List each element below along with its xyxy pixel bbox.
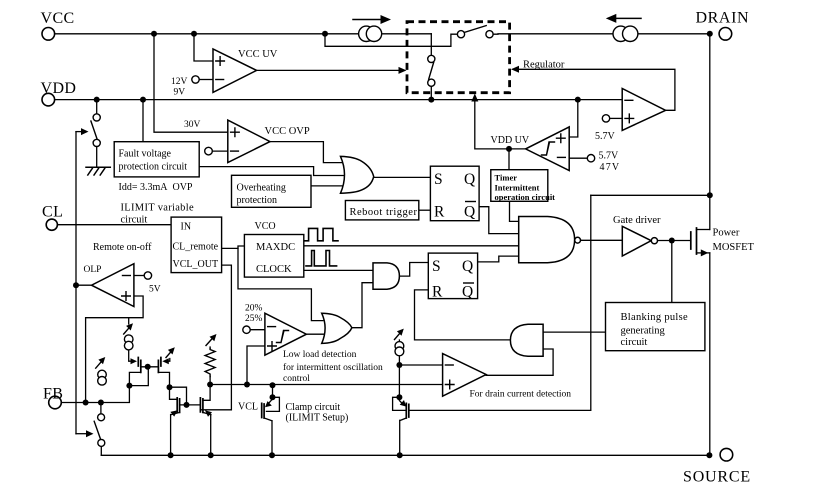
pin SOURCE bbox=[720, 448, 733, 461]
minus sign VCC OVP bbox=[231, 150, 239, 152]
arrowhead current source C bbox=[397, 329, 404, 336]
svg-text:R: R bbox=[432, 284, 443, 301]
wire VCC OVP output to fault OR gate bbox=[270, 142, 342, 163]
svg-text:Q: Q bbox=[462, 284, 473, 301]
wire VDD UV - reference stub bbox=[569, 157, 587, 159]
switch circle regulator top right bbox=[486, 31, 493, 38]
wire VCC branch to VCC UV + input bbox=[194, 34, 213, 61]
wire bottom source rail bbox=[101, 454, 709, 456]
arrowhead current source B bbox=[126, 323, 133, 330]
transistor M1 bbox=[138, 358, 141, 373]
wire M4 drain from rail bbox=[203, 385, 210, 401]
arrowhead into M2 gate bbox=[162, 358, 169, 364]
terminal circle 20% ref bbox=[243, 326, 250, 333]
node VCC junction 1 bbox=[151, 31, 157, 37]
wire VDD switch branch bbox=[96, 100, 98, 168]
svg-text:20%: 20% bbox=[245, 304, 263, 314]
node VCC junction 2 bbox=[191, 31, 197, 37]
current source C circles bbox=[395, 342, 404, 351]
svg-text:5V: 5V bbox=[149, 285, 161, 295]
current source VCC circles bbox=[359, 26, 374, 41]
op-amp VCC OVP bbox=[228, 120, 270, 162]
current source B circles bbox=[124, 335, 133, 344]
wire drain comparator output to blanking AND bbox=[486, 349, 553, 375]
wire reboot trigger to latch1 R bbox=[419, 209, 431, 211]
switch blade above resistor bbox=[206, 337, 214, 346]
node mirror mid bbox=[167, 384, 173, 390]
switch blade VDD bbox=[91, 121, 98, 140]
switch blade above M2 gate bbox=[166, 350, 173, 358]
node comparator minus bbox=[396, 362, 402, 368]
wire power MOSFET drain lead bbox=[697, 229, 710, 231]
wire current source B to M1 gate bbox=[129, 350, 133, 361]
wire OLP rail top arrow line bbox=[76, 131, 84, 133]
svg-text:DRAIN: DRAIN bbox=[696, 10, 750, 27]
box overheating protection bbox=[232, 175, 312, 207]
node rail clamp bbox=[270, 382, 276, 388]
wire remote switch to bottom rail bbox=[100, 403, 102, 456]
svg-text:Blanking pulse: Blanking pulse bbox=[621, 312, 689, 323]
box VCO bbox=[244, 235, 303, 278]
wire 5.7V reference stub bbox=[610, 117, 623, 119]
waveform MAXDC pulses bbox=[304, 228, 338, 240]
nand-gate main NAND U10 bbox=[519, 217, 575, 263]
comparator OLP bbox=[92, 264, 134, 307]
bubble gate driver output bbox=[651, 238, 657, 244]
transistor power MOSFET bbox=[691, 228, 697, 254]
arrowhead into regulator left edge bbox=[399, 67, 407, 74]
svg-text:generating: generating bbox=[621, 326, 666, 337]
plus sign VCC OVP bbox=[231, 128, 240, 137]
svg-text:circuit: circuit bbox=[621, 337, 648, 348]
node rail M6 bbox=[397, 452, 403, 458]
node M1 M2 drain bbox=[145, 364, 151, 370]
pin FB bbox=[49, 396, 62, 409]
wire MAXDC line to NAND input 3 bbox=[304, 245, 519, 247]
svg-text:12V: 12V bbox=[171, 77, 188, 87]
wire AND output to latch2 S bbox=[399, 263, 428, 277]
wire fault OR output to latch1 S bbox=[374, 176, 431, 178]
terminal circle VDD UV ref bbox=[587, 155, 594, 162]
wire M1 M2 drain tie bbox=[141, 366, 159, 368]
wire M5 source diagonal bbox=[264, 418, 272, 421]
wire VDD UV output to timer box bbox=[508, 149, 510, 170]
wire drain comparator - input bbox=[399, 364, 442, 366]
wire regulator feedback loop bbox=[513, 69, 675, 110]
wire M5 gate feed bbox=[272, 385, 274, 397]
svg-text:S: S bbox=[432, 258, 441, 275]
svg-text:(ILIMIT Setup): (ILIMIT Setup) bbox=[286, 413, 349, 424]
transistor M5 clamp bbox=[262, 403, 264, 418]
terminal circle OLP 5V bbox=[144, 272, 151, 279]
wire mirror gate feed M3 bbox=[170, 387, 178, 399]
wire M6 source diagonal bbox=[400, 418, 406, 421]
arrowhead VCC current source bbox=[381, 15, 392, 24]
box blanking pulse generating circuit bbox=[606, 303, 705, 351]
switch circle VDD lower bbox=[93, 139, 100, 146]
arrowhead into M1 gate bbox=[131, 358, 138, 364]
wire OLP output bbox=[76, 284, 92, 286]
svg-text:VCC UV: VCC UV bbox=[238, 49, 278, 60]
svg-text:IN: IN bbox=[181, 222, 192, 233]
current source DRAIN circles bbox=[613, 26, 628, 41]
wire gate driver output to power MOSFET gate bbox=[658, 240, 691, 242]
switch circle regulator top left bbox=[457, 31, 464, 38]
svg-text:ILIMIT variable: ILIMIT variable bbox=[121, 203, 194, 214]
buffer gate driver bbox=[622, 226, 651, 256]
comparator VDD UV bbox=[526, 127, 570, 171]
wire M6 source to rail bbox=[399, 420, 401, 455]
node drain sense bbox=[707, 192, 713, 198]
svg-text:VCC: VCC bbox=[41, 10, 75, 27]
overline latch1 Qbar bbox=[465, 201, 476, 203]
wire comparator 20% - stub bbox=[250, 329, 265, 331]
node rail M5 bbox=[269, 452, 275, 458]
overline latch2 Qbar bbox=[463, 282, 474, 284]
svg-text:Gate driver: Gate driver bbox=[613, 215, 661, 226]
hysteresis symbol low load bbox=[277, 331, 289, 343]
wire low load OR output to AND gate bbox=[352, 283, 373, 328]
plus sign low load bbox=[268, 342, 277, 351]
pin VDD bbox=[42, 93, 55, 106]
switch circle FB lower bbox=[98, 439, 105, 446]
wire timer box output to NAND input 1 bbox=[510, 201, 519, 221]
switch circle startup upper bbox=[428, 55, 435, 62]
wire VCC rail bbox=[55, 33, 432, 35]
terminal circle 5.7V regulator bbox=[602, 115, 609, 122]
plus sign OLP bbox=[122, 292, 131, 301]
wire M2 source lead bbox=[158, 372, 169, 387]
minus sign low load bbox=[268, 326, 276, 328]
svg-text:9V: 9V bbox=[174, 88, 186, 98]
wire M6 gate arrow line bbox=[399, 401, 403, 405]
comparator for drain current detection bbox=[443, 354, 487, 397]
transistor M6 bbox=[406, 403, 409, 418]
arrow over VCC current source bbox=[353, 19, 381, 21]
svg-text:Clamp circuit: Clamp circuit bbox=[286, 402, 341, 413]
box regulator dashed bbox=[407, 22, 510, 93]
box latch2 bbox=[428, 253, 477, 299]
wire VCC branch to 30V comparator + input bbox=[154, 34, 228, 132]
or-gate low load OR bbox=[322, 313, 352, 343]
svg-text:protection circuit: protection circuit bbox=[119, 162, 188, 173]
svg-text:5.7V: 5.7V bbox=[599, 151, 620, 162]
svg-text:OLP: OLP bbox=[84, 265, 102, 275]
wire comparator 20% + input to sense rail bbox=[247, 346, 265, 385]
plus sign regulator amp bbox=[625, 114, 634, 123]
wire OLP control rail bbox=[75, 132, 77, 434]
wire VCC OVP - input stub bbox=[212, 150, 228, 152]
arrowhead above M2 gate bbox=[168, 347, 175, 354]
wire cross couple M3 M4 bbox=[180, 404, 201, 406]
wire M3 source to rail bbox=[170, 415, 172, 456]
svg-text:MAXDC: MAXDC bbox=[256, 242, 295, 253]
wire gate net to blanking box bbox=[671, 241, 673, 303]
arrowhead into regulator right edge bbox=[511, 66, 519, 73]
wire CL pin to ILIMIT box bbox=[57, 224, 171, 226]
wire latch2 Q to NAND input 4 bbox=[478, 256, 519, 262]
arrowhead M6 gate bbox=[400, 400, 407, 407]
node rail resistor bbox=[207, 382, 213, 388]
wire M1 source lead bbox=[129, 372, 140, 385]
node VCC junction 3 bbox=[322, 31, 328, 37]
svg-text:Idd= 3.3mA OVP: Idd= 3.3mA OVP bbox=[119, 182, 193, 193]
wire NAND output to gate driver bbox=[581, 239, 623, 241]
wire startup switch verticals bbox=[430, 34, 432, 100]
op-amp VCC UV bbox=[213, 49, 257, 93]
node VDD junction 2 bbox=[140, 97, 146, 103]
wire power MOSFET source lead bbox=[697, 252, 710, 254]
wire OLP rail bottom arrow line bbox=[76, 433, 89, 435]
wire M4 source diagonal bbox=[203, 412, 211, 414]
svg-text:Timer: Timer bbox=[495, 173, 518, 183]
arrow over DRAIN current source bbox=[611, 17, 641, 19]
switch circle VDD upper bbox=[93, 114, 100, 121]
svg-text:control: control bbox=[283, 374, 310, 384]
wire switched source column to M6 bbox=[398, 340, 400, 397]
svg-text:5.7V: 5.7V bbox=[595, 131, 616, 142]
wire mirror node segment bbox=[129, 367, 148, 386]
svg-text:For drain current detection: For drain current detection bbox=[470, 390, 572, 400]
wire VDD UV output to regulator bbox=[475, 97, 526, 149]
node rail M3 bbox=[168, 452, 174, 458]
minus sign drain comparator bbox=[445, 364, 453, 366]
minus sign VDD UV bbox=[558, 156, 566, 158]
wire cross couple drop bbox=[170, 387, 187, 405]
hysteresis symbol VDD UV bbox=[542, 142, 555, 155]
arrowhead on power MOSFET source bbox=[701, 249, 709, 256]
wire 12V reference stub bbox=[199, 79, 213, 81]
node rail comparator plus bbox=[244, 382, 250, 388]
terminal circle 30V ref bbox=[205, 147, 213, 155]
wire comparator 20% output to OR bbox=[306, 333, 323, 335]
svg-text:Low load detection: Low load detection bbox=[283, 350, 357, 360]
node cross couple bbox=[184, 402, 190, 408]
resistor R1 bbox=[205, 349, 215, 377]
svg-text:R: R bbox=[434, 204, 445, 221]
wire CLOCK line to AND gate bbox=[304, 269, 373, 271]
switch circle FB upper bbox=[98, 414, 105, 421]
wire OLP - stub bbox=[134, 275, 144, 277]
node VDD junction startup bbox=[428, 97, 434, 103]
svg-text:Q: Q bbox=[464, 204, 475, 221]
switch blade regulator top bbox=[464, 26, 486, 33]
switch blade FB remote bbox=[94, 421, 100, 438]
plus sign drain comparator bbox=[445, 380, 454, 389]
arrowhead M4 source bbox=[205, 410, 212, 416]
arrowhead at FB switch bbox=[86, 430, 94, 437]
svg-text:Intermittent: Intermittent bbox=[495, 183, 540, 193]
wire M3 source diagonal bbox=[171, 412, 180, 414]
svg-text:CL: CL bbox=[42, 204, 63, 221]
svg-text:Q: Q bbox=[462, 258, 473, 275]
svg-text:VDD: VDD bbox=[41, 80, 77, 97]
node VDD junction sense bbox=[575, 97, 581, 103]
transistor M2 bbox=[158, 358, 161, 373]
wire OLP + input path bbox=[86, 296, 144, 403]
and-gate blanking AND mirrored bbox=[510, 324, 543, 356]
wire current sense rail bbox=[210, 384, 443, 386]
wire VDD UV + input feed bbox=[569, 100, 578, 137]
comparator low load 20% bbox=[265, 313, 307, 355]
wire M6 wrap bbox=[393, 397, 407, 410]
svg-text:VCC OVP: VCC OVP bbox=[265, 126, 310, 137]
wire regulator switch output to DRAIN bbox=[493, 33, 710, 35]
node DRAIN junction bbox=[707, 31, 713, 37]
node FB a bbox=[83, 400, 89, 406]
svg-text:VCL_OUT: VCL_OUT bbox=[173, 259, 219, 270]
svg-text:MOSFET: MOSFET bbox=[713, 242, 755, 253]
wire VCC branch to regulator switch bbox=[325, 34, 457, 47]
svg-text:CLOCK: CLOCK bbox=[256, 264, 292, 275]
wire overheating output to OR gate bbox=[311, 185, 345, 187]
arrowhead up into regulator bottom bbox=[471, 94, 478, 102]
transistor M3 bbox=[177, 398, 179, 413]
box timer intermittent operation circuit bbox=[491, 170, 548, 202]
svg-text:Regulator: Regulator bbox=[523, 60, 565, 71]
box reboot trigger bbox=[345, 201, 418, 220]
plus sign VCC UV bbox=[216, 57, 225, 66]
svg-text:S: S bbox=[434, 171, 443, 188]
wire drain sense horizontal bbox=[591, 194, 710, 196]
svg-text:FB: FB bbox=[43, 386, 63, 403]
wire VDD to fault box feed bbox=[142, 100, 144, 142]
svg-text:VCO: VCO bbox=[255, 221, 276, 232]
svg-text:Fault voltage: Fault voltage bbox=[119, 149, 172, 160]
wire M5 wrap bbox=[266, 397, 279, 411]
node VDD junction 1 bbox=[94, 97, 100, 103]
svg-text:CL_remote: CL_remote bbox=[173, 242, 219, 253]
svg-text:operation circuit: operation circuit bbox=[495, 192, 556, 202]
minus sign OLP bbox=[123, 275, 131, 277]
arrowhead M3 source bbox=[170, 410, 177, 416]
wire resistor column bbox=[209, 347, 211, 385]
op-amp regulator error amp bbox=[622, 89, 665, 131]
arrowhead above resistor bbox=[210, 334, 217, 341]
arrowhead DRAIN current source bbox=[606, 14, 617, 23]
svg-text:Remote on-off: Remote on-off bbox=[93, 242, 152, 253]
svg-text:circuit: circuit bbox=[121, 215, 148, 226]
box fault voltage protection circuit bbox=[114, 142, 199, 177]
switch blade regulator left bbox=[429, 62, 434, 79]
switch blade above current source A bbox=[96, 360, 103, 369]
svg-text:VDD UV: VDD UV bbox=[491, 135, 530, 146]
pin CL bbox=[46, 219, 57, 230]
terminal circle 12V bbox=[192, 76, 199, 83]
wire blanking sense vertical to M6 bbox=[409, 195, 591, 410]
node M6 gate bbox=[396, 394, 402, 400]
switch blade above current source B bbox=[124, 326, 131, 334]
switch circle startup lower bbox=[428, 79, 435, 86]
bubble NAND output bbox=[575, 237, 581, 243]
waveform CLOCK pulses bbox=[306, 251, 337, 266]
box latch1 bbox=[430, 166, 479, 221]
pin DRAIN bbox=[719, 28, 732, 41]
current source A circles bbox=[98, 370, 107, 379]
wire CL_remote branch to low load OR bbox=[238, 248, 323, 320]
svg-text:SOURCE: SOURCE bbox=[683, 469, 751, 486]
switch blade above current source C bbox=[395, 331, 402, 339]
box ILIMIT variable circuit bbox=[171, 217, 222, 273]
wire blanking AND output to latch2 R bbox=[415, 290, 511, 340]
arrowhead at VDD switch bbox=[81, 128, 89, 135]
node OLP output bbox=[73, 282, 79, 288]
wire VCL_OUT to M4 gate bbox=[200, 265, 231, 410]
node VDD UV output bbox=[506, 146, 512, 152]
wire VCC UV output to regulator box bbox=[257, 69, 404, 71]
svg-text:Reboot trigger: Reboot trigger bbox=[350, 207, 418, 218]
wire DRAIN vertical upper segment bbox=[709, 34, 711, 230]
arrowhead current source A bbox=[98, 357, 105, 364]
svg-text:protection: protection bbox=[237, 195, 278, 206]
arrowhead M5 gate bbox=[265, 401, 272, 407]
or-gate fault OR bbox=[341, 156, 374, 193]
wire M5 source to rail bbox=[271, 421, 273, 455]
and-gate clock AND bbox=[373, 263, 399, 289]
node FB b bbox=[98, 400, 104, 406]
wire M4 source to rail bbox=[210, 415, 212, 456]
transistor M4 bbox=[200, 398, 203, 413]
svg-text:Power: Power bbox=[713, 228, 740, 239]
svg-text:for intermittent oscillation: for intermittent oscillation bbox=[283, 362, 383, 373]
wire current source B stub bbox=[128, 318, 130, 324]
wire VDD rail bbox=[55, 99, 622, 101]
node gate drive bbox=[669, 238, 675, 244]
minus sign VCC UV bbox=[216, 79, 224, 81]
wire CL_remote to VCO box bbox=[222, 246, 245, 248]
node mirror left bbox=[126, 383, 132, 389]
svg-text:25%: 25% bbox=[245, 314, 263, 324]
pin VCC bbox=[42, 28, 55, 41]
wire latch1 Qbar to NAND input 2 bbox=[479, 207, 519, 234]
svg-text:47V: 47V bbox=[600, 162, 621, 173]
wire blanking box to AND input bbox=[543, 331, 605, 333]
wire M2 gate feed bbox=[166, 359, 170, 362]
svg-text:VCL: VCL bbox=[238, 402, 258, 413]
svg-text:Q: Q bbox=[464, 171, 475, 188]
wire M5 gate arrow line bbox=[268, 399, 273, 404]
node M5 gate bbox=[270, 394, 276, 400]
svg-text:30V: 30V bbox=[184, 120, 201, 130]
wire DRAIN vertical lower segment to SOURCE bbox=[709, 253, 711, 455]
plus sign VDD UV bbox=[557, 134, 566, 143]
ground symbol bbox=[86, 167, 110, 175]
svg-text:Overheating: Overheating bbox=[237, 183, 286, 194]
minus sign regulator amp bbox=[625, 99, 633, 101]
node rail M4 bbox=[208, 452, 214, 458]
node SOURCE junction bbox=[706, 452, 712, 458]
wire fault box output to OR gate bbox=[199, 167, 343, 176]
wire FB line bbox=[61, 386, 129, 403]
